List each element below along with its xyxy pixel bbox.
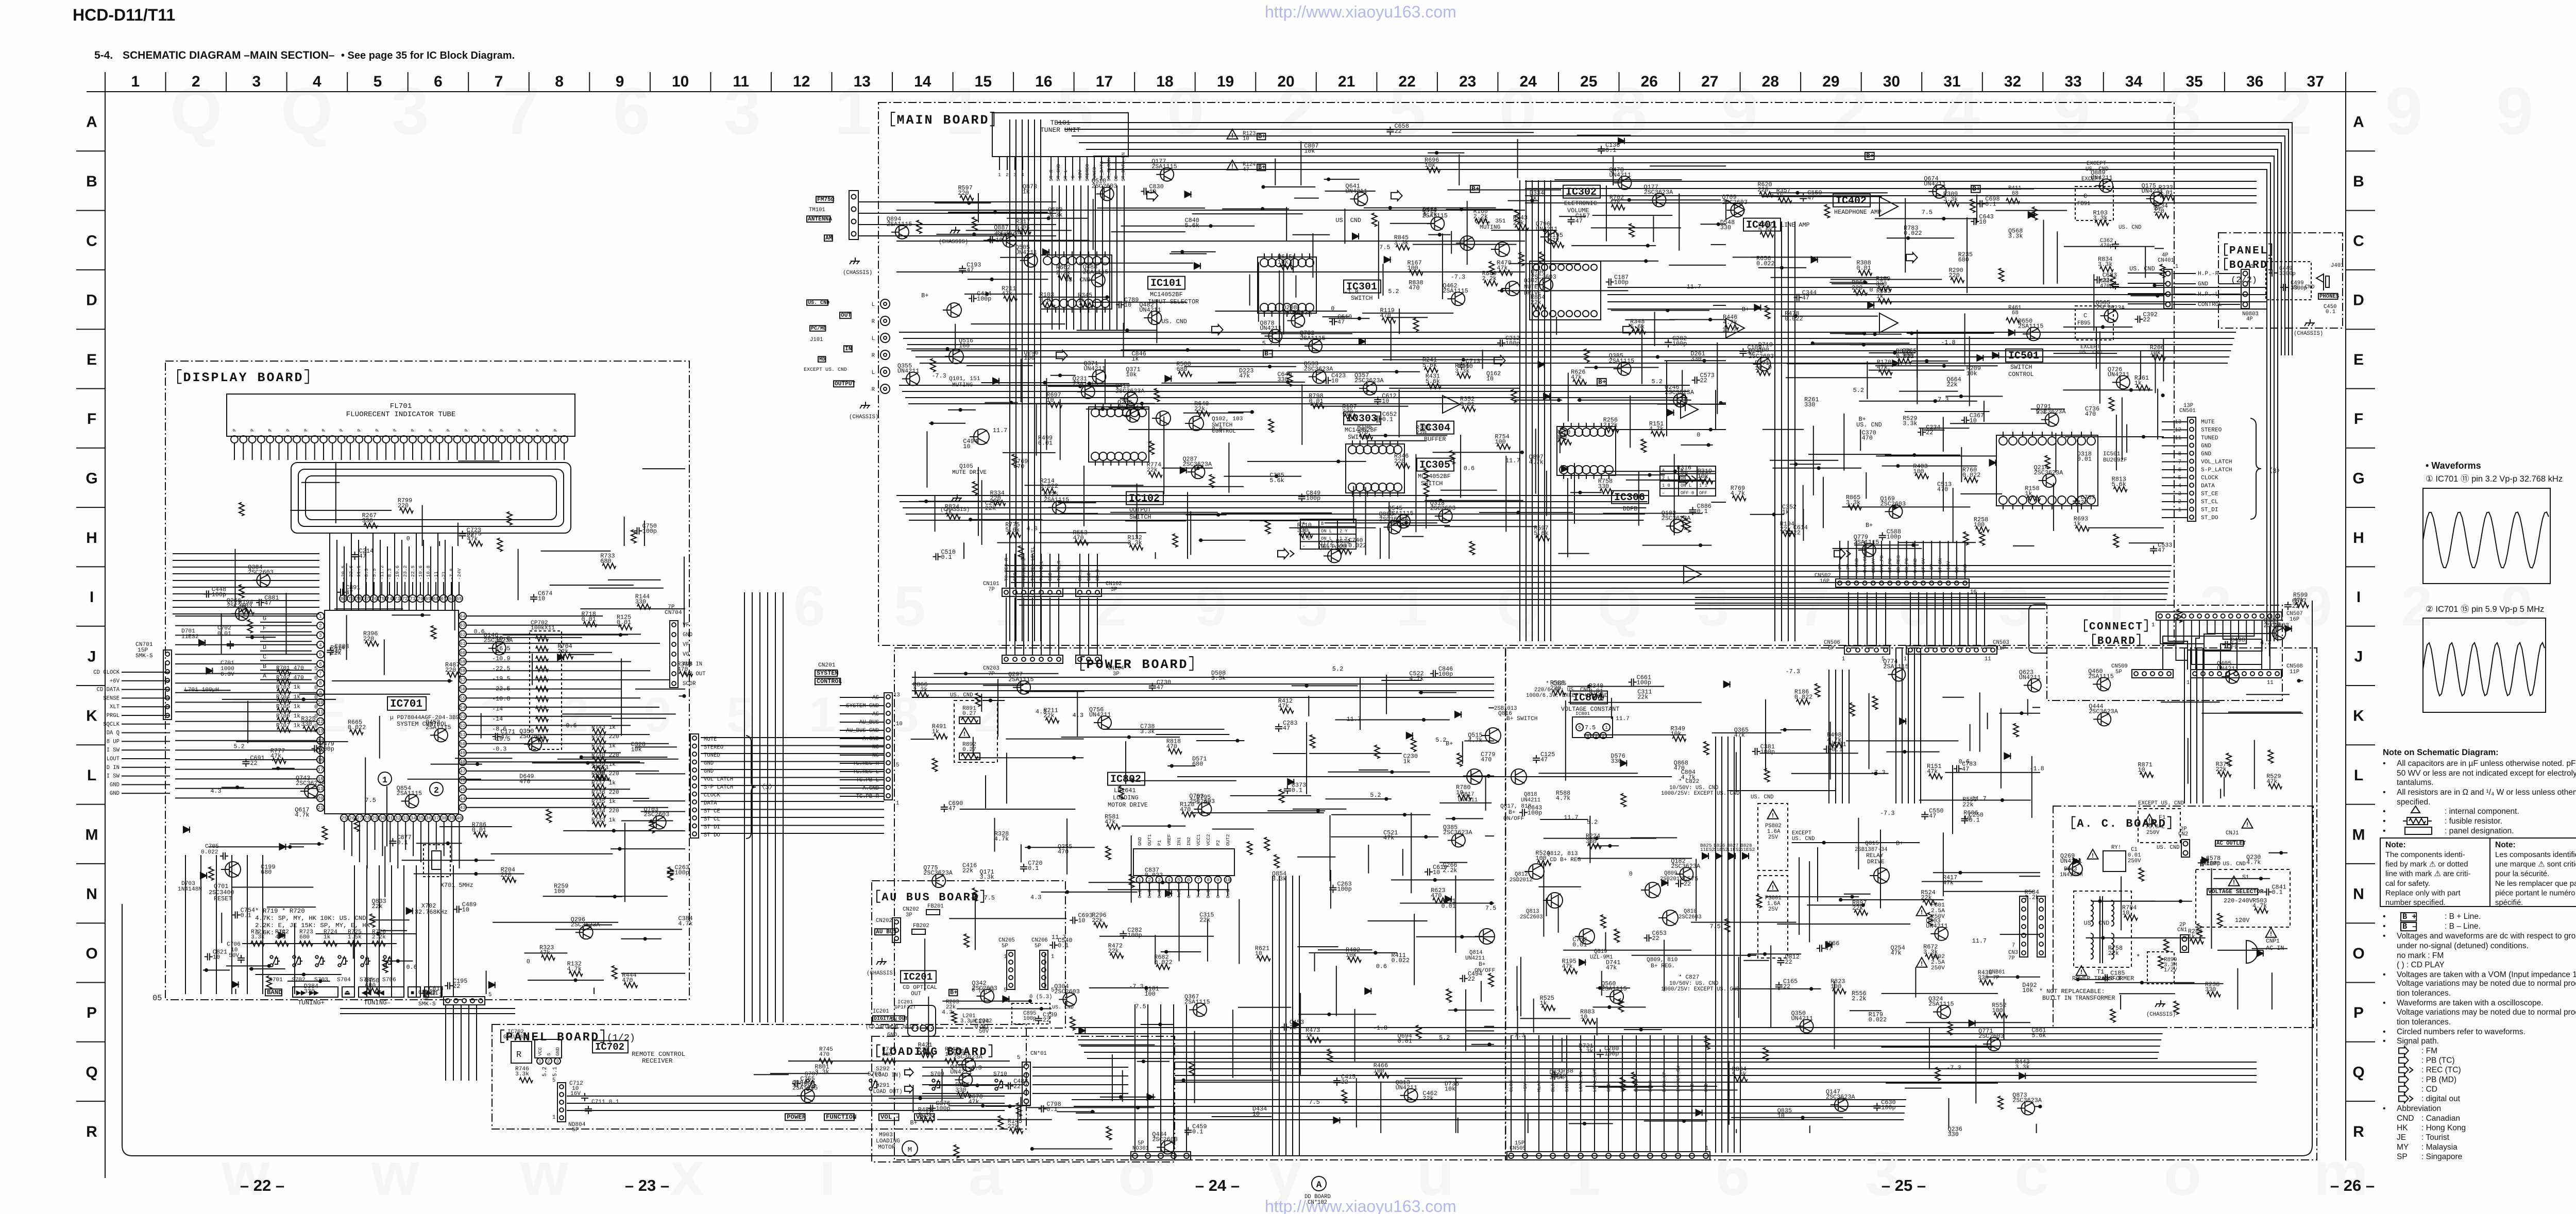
- svg-text:22k: 22k: [1199, 916, 1210, 924]
- svg-text:IC101: IC101: [1150, 278, 1181, 289]
- opamp IC304 triangle: [1443, 396, 1460, 413]
- svg-text:100: 100: [1144, 990, 1155, 998]
- svg-text:9: 9: [2496, 73, 2533, 148]
- svg-text:100: 100: [1913, 468, 1924, 475]
- svg-text:330: 330: [1277, 376, 1288, 383]
- svg-text:47k: 47k: [2266, 778, 2277, 785]
- svg-text:0.8: 0.8: [1206, 890, 1211, 898]
- svg-text:D: D: [2353, 292, 2364, 309]
- svg-text:2SA1115: 2SA1115: [792, 1084, 818, 1091]
- svg-text:22k: 22k: [1946, 381, 1957, 388]
- connector CN507 16P: [2156, 612, 2282, 620]
- wire bundle display to panel board: [445, 1004, 446, 1081]
- svg-text:0.022: 0.022: [1154, 959, 1172, 966]
- vertical bus 2: [1519, 180, 1520, 641]
- svg-text:5.6k: 5.6k: [1269, 477, 1284, 484]
- svg-text:7.5: 7.5: [1485, 905, 1496, 912]
- svg-text:74: 74: [386, 596, 393, 602]
- svg-text:0.1: 0.1: [2272, 889, 2282, 896]
- svg-text:UN4211: UN4211: [1015, 249, 1037, 257]
- svg-text:47k: 47k: [1002, 290, 1012, 298]
- svg-text:0.01: 0.01: [1441, 902, 1455, 910]
- crystal X701: [423, 845, 450, 877]
- svg-text:FLUORECENT INDICATOR TUBE: FLUORECENT INDICATOR TUBE: [346, 411, 456, 419]
- board outline AU BUS BOARD: [872, 881, 1065, 1028]
- svg-text:R: R: [872, 353, 875, 359]
- svg-text:MC14052BF: MC14052BF: [1150, 291, 1183, 298]
- svg-text:330: 330: [1690, 355, 1701, 363]
- svg-text:GND: GND: [2198, 281, 2208, 287]
- AC board filler: [2124, 915, 2138, 920]
- svg-text:47: 47: [948, 805, 956, 812]
- svg-text:-1.8: -1.8: [1941, 339, 1955, 346]
- svg-text:36: 36: [2246, 73, 2263, 90]
- svg-text:!: !: [2080, 968, 2082, 976]
- svg-text:47k: 47k: [1562, 963, 1573, 970]
- svg-text:2SC2603: 2SC2603: [519, 733, 545, 740]
- svg-text:UN4211: UN4211: [2019, 674, 2041, 681]
- svg-text:B+: B+: [1896, 840, 1903, 847]
- svg-text:1: 1: [809, 688, 836, 742]
- svg-text:43: 43: [460, 805, 466, 811]
- svg-text:K: K: [86, 708, 97, 725]
- svg-text:S291: S291: [876, 1083, 890, 1089]
- svg-text:21: 21: [1338, 73, 1355, 90]
- svg-text:27: 27: [1701, 73, 1718, 90]
- svg-text:47: 47: [1929, 812, 1936, 819]
- svg-text:680: 680: [299, 934, 310, 941]
- svg-text:0.1: 0.1: [1292, 787, 1302, 794]
- svg-text:* C827: * C827: [1679, 974, 1699, 981]
- IC701 label box: [387, 697, 426, 710]
- svg-text:22k: 22k: [1092, 917, 1103, 924]
- svg-text:7.4: 7.4: [1196, 890, 1201, 898]
- svg-text:330: 330: [1598, 483, 1609, 490]
- svg-text:3.3µH: 3.3µH: [960, 1018, 977, 1024]
- svg-text:22k: 22k: [1780, 525, 1791, 533]
- relay RY1: [2103, 851, 2126, 871]
- antenna chassis ground: [855, 258, 856, 261]
- svg-text:◀◀ ◀◀: ◀◀ ◀◀: [361, 989, 384, 997]
- svg-text:26: 26: [349, 815, 355, 821]
- display left wires: [173, 553, 319, 554]
- svg-text:S701: S701: [269, 977, 283, 983]
- svg-text:22k: 22k: [2216, 766, 2227, 773]
- transformer T1: [2074, 891, 2131, 967]
- svg-text:0.6: 0.6: [406, 964, 417, 971]
- grid frame top ruler line: [87, 91, 2376, 92]
- svg-text:OUT: OUT: [841, 313, 851, 319]
- svg-text:-22.5: -22.5: [492, 665, 510, 673]
- svg-text:Ne les remplacer que par une: Ne les remplacer que par une: [2495, 880, 2576, 888]
- main board filler right: [2105, 309, 2118, 322]
- svg-text:11: 11: [1985, 656, 1991, 662]
- svg-text:10: 10: [1777, 1112, 1785, 1119]
- svg-text:GND: GND: [110, 791, 120, 797]
- svg-text:4.3: 4.3: [971, 1064, 981, 1071]
- svg-text:2SC3623A: 2SC3623A: [2089, 708, 2119, 715]
- svg-text:BAND: BAND: [267, 989, 282, 996]
- svg-text:OFF 0: OFF 0: [1681, 491, 1694, 496]
- svg-text:0.01: 0.01: [2077, 455, 2092, 463]
- svg-text:1k: 1k: [2025, 490, 2032, 497]
- circled A marker: [1312, 1176, 1326, 1191]
- svg-text:61: 61: [460, 641, 466, 646]
- svg-text:4.7k: 4.7k: [567, 965, 582, 972]
- svg-text:9: 9: [1195, 575, 1227, 638]
- svg-text:1k: 1k: [1023, 189, 1030, 196]
- remote receiver IC702 symbol: [511, 1041, 532, 1063]
- svg-text:1k: 1k: [324, 934, 331, 941]
- svg-text:LOADING: LOADING: [1113, 794, 1139, 801]
- svg-text:22: 22: [1926, 429, 1933, 436]
- svg-text:2SC3623A: 2SC3623A: [1182, 460, 1212, 468]
- svg-text:1 0: 1 0: [1662, 483, 1670, 488]
- svg-text:P: P: [481, 429, 487, 432]
- svg-text:2SA1115: 2SA1115: [1928, 1001, 1954, 1008]
- svg-text:5P: 5P: [1828, 645, 1835, 652]
- svg-text:2SC2603: 2SC2603: [248, 569, 274, 576]
- key labels POWER FUNCTION VOL: [785, 1114, 805, 1120]
- svg-text:UN4211: UN4211: [1260, 325, 1281, 332]
- svg-text:470: 470: [819, 1052, 829, 1058]
- svg-text:2P: 2P: [2179, 922, 2186, 928]
- svg-text:22k: 22k: [1921, 894, 1931, 901]
- svg-text:0.022: 0.022: [1785, 315, 1803, 322]
- svg-text:: Hong Kong: : Hong Kong: [2421, 1124, 2466, 1133]
- svg-text:47: 47: [1337, 318, 1345, 326]
- svg-text:: B + Line.: : B + Line.: [2445, 912, 2481, 921]
- svg-text:TUNING+: TUNING+: [298, 999, 325, 1006]
- svg-text:B+: B+: [1471, 185, 1480, 193]
- svg-text:0.022: 0.022: [1904, 230, 1922, 237]
- svg-text:47: 47: [1283, 725, 1290, 732]
- switch IC301: [1258, 257, 1316, 313]
- svg-text:5P: 5P: [1002, 943, 1008, 949]
- svg-text:22: 22: [1394, 128, 1401, 135]
- svg-text:X701 5MHz: X701 5MHz: [440, 882, 473, 889]
- IC701 right pin circles: [459, 612, 466, 620]
- svg-text:(LOAD IN): (LOAD IN): [872, 1072, 901, 1079]
- svg-text:B +: B +: [2402, 912, 2417, 921]
- svg-text:11: 11: [317, 709, 324, 715]
- svg-text:11.7: 11.7: [1564, 814, 1578, 822]
- svg-text:330: 330: [1720, 224, 1731, 231]
- svg-text:34: 34: [410, 815, 416, 821]
- svg-text:-8.3: -8.3: [364, 568, 369, 580]
- svg-text:47k: 47k: [1497, 265, 1507, 272]
- label A.C. BOARD: [2072, 817, 2076, 829]
- svg-text:3: 3: [319, 632, 322, 638]
- svg-text:•: •: [2383, 999, 2385, 1007]
- svg-text:GP1U50XB: GP1U50XB: [503, 1034, 530, 1040]
- svg-text:0: 0: [406, 535, 410, 542]
- svg-text:0.01: 0.01: [617, 619, 631, 626]
- svg-text:47: 47: [1540, 756, 1548, 763]
- svg-text:5: 5: [319, 652, 322, 657]
- svg-text:7P: 7P: [1993, 975, 1999, 981]
- svg-text:1: 1: [131, 73, 140, 90]
- svg-text:(CHASSIS): (CHASSIS): [867, 970, 896, 977]
- svg-text:(CHASSIS): (CHASSIS): [843, 270, 872, 276]
- svg-text:10: 10: [1970, 417, 1977, 424]
- svg-text:0.01: 0.01: [1398, 1037, 1412, 1045]
- svg-text:2.2k: 2.2k: [1852, 995, 1866, 1002]
- svg-text:39: 39: [449, 815, 454, 821]
- svg-text:9: 9: [2385, 73, 2422, 148]
- svg-text:5.2: 5.2: [2036, 408, 2046, 416]
- svg-text:10k: 10k: [1670, 730, 1681, 738]
- svg-text:o: o: [2164, 1139, 2201, 1208]
- svg-text:70: 70: [417, 596, 423, 602]
- svg-text:0.01: 0.01: [1856, 265, 1871, 272]
- svg-text:Q: Q: [1597, 575, 1641, 638]
- label MAIN BOARD: [891, 112, 895, 126]
- svg-text:H.P.-R: H.P.-R: [2198, 271, 2219, 277]
- svg-text:57: 57: [460, 677, 465, 683]
- svg-text:9: 9: [1721, 73, 1758, 148]
- svg-text:!: !: [2092, 852, 2094, 859]
- svg-text:B+: B+: [2155, 205, 2162, 212]
- svg-text:US. CND: US. CND: [1751, 794, 1774, 800]
- svg-text:100: 100: [1992, 1007, 2003, 1014]
- svg-text:2SA1115: 2SA1115: [1443, 287, 1468, 295]
- svg-text:10k: 10k: [2150, 349, 2161, 356]
- svg-text:+5V: +5V: [1522, 1083, 1528, 1092]
- svg-text:P: P: [446, 429, 451, 432]
- svg-text:1k: 1k: [1403, 758, 1411, 765]
- svg-text:2SC2603: 2SC2603: [1531, 273, 1556, 281]
- svg-text:2: 2: [434, 785, 439, 795]
- connector CN101 7P: [1002, 588, 1063, 596]
- svg-text:2SC3623A: 2SC3623A: [1282, 310, 1312, 317]
- svg-text:C711 0.1: C711 0.1: [591, 1099, 619, 1105]
- svg-text:F: F: [263, 625, 266, 632]
- opamp IC306-1: [1681, 401, 1698, 418]
- svg-text:22: 22: [1013, 1083, 1021, 1090]
- svg-text:⏏: ⏏: [344, 989, 350, 997]
- opamp IC402-1: [1879, 197, 1898, 216]
- svg-text:cal for safety.: cal for safety.: [2385, 880, 2430, 888]
- svg-text:2SA1115: 2SA1115: [1300, 335, 1326, 342]
- svg-text:P: P: [428, 429, 434, 432]
- svg-text:46: 46: [460, 778, 466, 783]
- svg-text:5.2: 5.2: [1853, 387, 1864, 394]
- svg-text:8 UP: 8 UP: [107, 739, 120, 745]
- connector CN102 3P: [1076, 588, 1101, 596]
- svg-text:GND: GND: [110, 782, 120, 788]
- mid bus wires 2: [896, 210, 1525, 211]
- svg-text:470: 470: [1431, 892, 1442, 899]
- svg-text:Note:: Note:: [2385, 841, 2406, 849]
- svg-text:IN/OUT_SW: IN/OUT_SW: [1675, 1066, 1681, 1092]
- svg-text:A: A: [263, 673, 267, 680]
- power vertical bundle right: [2184, 648, 2185, 803]
- svg-text:0: 0: [1697, 432, 1700, 439]
- svg-text:MUTE DRIVE: MUTE DRIVE: [952, 470, 987, 476]
- svg-text:470: 470: [1166, 743, 1177, 750]
- svg-text:3.3k: 3.3k: [1579, 1048, 1593, 1055]
- board outline MAIN BOARD: [878, 102, 2174, 645]
- svg-text:2SC2603: 2SC2603: [227, 602, 252, 609]
- svg-text:10: 10: [1580, 1013, 1587, 1020]
- svg-text:100p: 100p: [1604, 1050, 1619, 1057]
- svg-text:R705 1k: R705 1k: [276, 704, 300, 710]
- svg-text:CD CLOCK: CD CLOCK: [93, 670, 120, 676]
- svg-text:0.6: 0.6: [1464, 465, 1475, 472]
- svg-text:5.2: 5.2: [1332, 665, 1343, 673]
- svg-text:DA Q: DA Q: [107, 730, 120, 737]
- svg-text:!: !: [1921, 909, 1923, 916]
- svg-text:0: 0: [1186, 895, 1192, 898]
- svg-text:33: 33: [403, 815, 409, 821]
- svg-text:IC102: IC102: [1129, 493, 1160, 505]
- svg-text:Q: Q: [86, 1064, 97, 1081]
- svg-text:1: 1: [1566, 1139, 1601, 1208]
- svg-text:5: 5: [488, 992, 492, 998]
- connector CN508 11P: [2191, 670, 2281, 678]
- svg-text:CN704: CN704: [665, 610, 682, 616]
- svg-text:D IN: D IN: [107, 765, 120, 771]
- svg-text:1: 1: [2175, 264, 2178, 270]
- transistor Q701 reset: [225, 862, 241, 877]
- svg-text:3.3k: 3.3k: [2098, 261, 2112, 268]
- svg-text:22: 22: [1783, 983, 1790, 990]
- svg-text:13: 13: [854, 73, 871, 90]
- svg-text:B+: B+: [1598, 378, 1606, 386]
- svg-text:1: 1: [1004, 954, 1007, 960]
- svg-text:B –: B –: [2402, 922, 2417, 931]
- svg-text:11ES2: 11ES2: [181, 634, 199, 640]
- svg-text:11.7: 11.7: [993, 427, 1007, 434]
- receiver pins VCC S GND: [535, 1039, 562, 1058]
- svg-text:US. CND: US. CND: [2084, 920, 2110, 927]
- svg-text:P: P: [357, 429, 362, 432]
- antenna connector TM101: [816, 196, 834, 202]
- svg-text:: digital out: : digital out: [2421, 1095, 2461, 1103]
- svg-text:470: 470: [519, 778, 530, 785]
- svg-text:no mark : FM: no mark : FM: [2397, 951, 2444, 960]
- svg-text:8: 8: [1207, 877, 1210, 883]
- svg-text:B: B: [263, 663, 266, 670]
- svg-text:: REC (TC): : REC (TC): [2421, 1066, 2461, 1074]
- svg-text:-7.3: -7.3: [1880, 810, 1894, 817]
- label DISPLAY BOARD: [178, 370, 182, 383]
- svg-text:L: L: [2354, 767, 2363, 784]
- svg-text:20: 20: [1277, 73, 1294, 90]
- svg-text:7: 7: [1197, 877, 1200, 883]
- svg-text:0.1: 0.1: [1605, 147, 1616, 154]
- svg-text:2.2k: 2.2k: [1056, 269, 1071, 276]
- svg-text:22k: 22k: [946, 1004, 956, 1011]
- svg-text:22k: 22k: [1637, 694, 1648, 701]
- svg-text:-22.6: -22.6: [348, 565, 354, 580]
- svg-text:470: 470: [1937, 486, 1948, 493]
- svg-text:2: 2: [1006, 172, 1009, 178]
- svg-text:UN4211: UN4211: [2108, 371, 2129, 378]
- svg-text:Q809, 810: Q809, 810: [1647, 957, 1678, 963]
- svg-text:DRIVE: DRIVE: [1867, 859, 1885, 865]
- svg-text:5.6k: 5.6k: [1426, 378, 1440, 385]
- svg-text:w: w: [370, 1139, 419, 1208]
- svg-text:3.3k: 3.3k: [1846, 499, 1860, 506]
- connect board loop: [2029, 605, 2047, 653]
- svg-text:number specified.: number specified.: [2385, 899, 2446, 907]
- IC301 label box: [1344, 280, 1381, 293]
- svg-text:1: 1: [1396, 575, 1428, 638]
- svg-text:10: 10: [1433, 869, 1440, 876]
- svg-text:5: 5: [1051, 987, 1054, 994]
- svg-text:IN2: IN2: [1186, 837, 1192, 846]
- svg-text:5: 5: [374, 73, 382, 90]
- svg-text:8: 8: [319, 680, 322, 686]
- svg-text:9: 9: [616, 73, 624, 90]
- svg-text:47k: 47k: [1877, 364, 1888, 371]
- svg-text:•: •: [2383, 827, 2385, 835]
- svg-text:S706: S706: [382, 977, 396, 983]
- svg-text:1k: 1k: [2134, 380, 2142, 387]
- svg-text:VCC2: VCC2: [1206, 834, 1211, 846]
- signal arrows main board: [1147, 191, 1158, 201]
- svg-text:22k: 22k: [1043, 712, 1054, 720]
- svg-text:2SC3623A: 2SC3623A: [1665, 389, 1694, 396]
- svg-text:28: 28: [364, 815, 370, 821]
- svg-text:3.3k: 3.3k: [979, 874, 994, 881]
- svg-text:330: 330: [304, 988, 315, 995]
- svg-text:2SC3623A: 2SC3623A: [296, 780, 326, 787]
- svg-text:IC501: IC501: [2008, 350, 2039, 362]
- svg-text:5: 5: [1056, 73, 1093, 148]
- svg-text:47k: 47k: [1549, 237, 1560, 244]
- svg-text:0.022: 0.022: [1756, 260, 1774, 267]
- svg-text:① IC701 ⑪ pin 3.2 Vp-p 32.7: ① IC701 ⑪ pin 3.2 Vp-p 32.768 kHz: [2426, 474, 2563, 484]
- svg-text:D: D: [263, 644, 266, 651]
- connector CN503 11P: [1906, 646, 1997, 654]
- svg-text:5.6k: 5.6k: [1630, 323, 1645, 330]
- svg-text:i: i: [819, 1139, 836, 1208]
- svg-text:VG: VG: [683, 652, 689, 658]
- svg-text:B+ REG.: B+ REG.: [1651, 963, 1675, 969]
- B+ REG transistors right: [1645, 882, 1660, 898]
- svg-text:LB1641: LB1641: [1114, 787, 1136, 794]
- svg-text:47: 47: [1575, 218, 1583, 225]
- svg-text:100p: 100p: [1614, 279, 1629, 286]
- svg-text:100: 100: [1024, 354, 1035, 362]
- svg-text:3: 3: [392, 73, 429, 148]
- svg-text:0: 0: [1215, 895, 1221, 898]
- svg-text:ON/OFF: ON/OFF: [1503, 816, 1524, 822]
- svg-text:5: 5: [552, 1078, 555, 1084]
- opamp IC401-2: [1726, 318, 1744, 338]
- resistor network CP702: [530, 631, 562, 749]
- svg-text:Replace only with part: Replace only with part: [2385, 889, 2461, 897]
- svg-text:R706 1k: R706 1k: [276, 713, 300, 720]
- svg-text:Les composants identifiés par: Les composants identifiés par: [2495, 851, 2576, 859]
- svg-text:I SW: I SW: [107, 774, 120, 780]
- svg-text:P: P: [535, 429, 540, 432]
- svg-text:6: 6: [1716, 1139, 1750, 1208]
- grid frame right ruler line: [2345, 92, 2346, 1160]
- svg-text:47k: 47k: [968, 1099, 979, 1106]
- svg-text:EXCEPT US. CND: EXCEPT US. CND: [804, 367, 847, 373]
- svg-text:330: 330: [1611, 758, 1621, 765]
- IC802 chip: [1133, 849, 1234, 876]
- svg-text:(CHASSIS): (CHASSIS): [2146, 1012, 2176, 1018]
- svg-text:10: 10: [1382, 398, 1389, 405]
- svg-text:470: 470: [622, 977, 633, 984]
- svg-text:-8.3: -8.3: [387, 568, 393, 580]
- svg-text:2SC3623A: 2SC3623A: [484, 637, 514, 644]
